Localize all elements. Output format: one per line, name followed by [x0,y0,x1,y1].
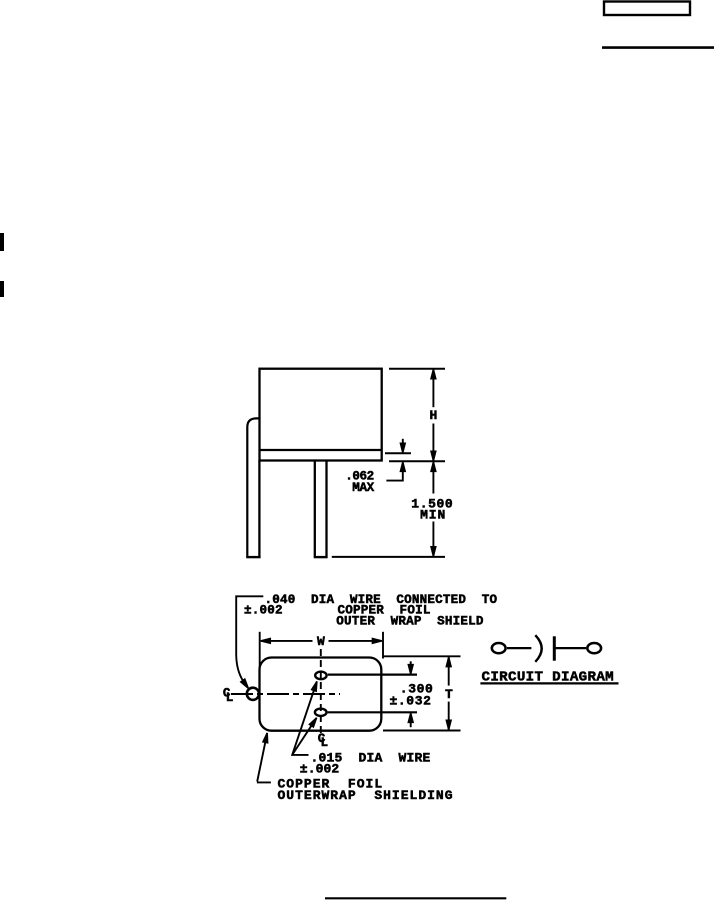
leader arrowhead to bottom wire [309,718,316,727]
.062 upper arrow stub [402,439,404,444]
.062 top tick extension line [385,452,411,454]
H dimension line upper segment [432,369,434,408]
circuit diagram right wire [556,647,587,649]
T dimension line lower segment [448,702,450,730]
capacitor curved plate [535,635,541,662]
circuit diagram left terminal [492,643,506,653]
leader arrowhead to case corner [263,733,268,743]
bottom wire cross-section ellipse [315,709,327,716]
.062 arrow up [400,462,405,472]
capacitor straight plate [553,636,556,660]
body base strip line (side view) [260,449,382,451]
left lead (bent, side view) [247,418,259,557]
H dimension top extension line [389,368,445,370]
W dimension line left segment [261,640,313,642]
svg-text:MAX: MAX [352,481,374,495]
1.500 arrow down [431,547,436,557]
vertical centerline (dashed) [320,649,322,733]
top wire cross-section ellipse [315,672,326,680]
.300 arrow down [408,665,413,675]
W extension line right [382,632,384,659]
leader lines from .015 label to wires [292,681,317,755]
1.500 dimension line lower segment [432,522,434,557]
header rule (top right) [602,46,714,49]
W dimension line right segment [329,640,382,642]
left lead bottom cap [246,556,260,558]
.300 arrow up [408,713,413,723]
H arrow down [431,451,436,461]
leader from .040 label to wire [236,596,263,681]
leader arrowhead to top wire [312,681,317,691]
svg-text:H: H [429,408,437,423]
1.500 dimension line upper segment [432,461,434,493]
leader arrowhead (.040 wire) [241,679,249,688]
W arrow left [261,639,271,644]
svg-text:L: L [321,736,329,750]
T arrow up [446,657,451,667]
T dimension line upper segment [448,657,450,686]
T extension line top [383,655,461,657]
.062 lower arrow stub and elbow [386,471,402,481]
underline for CIRCUIT DIAGRAM [480,682,618,684]
T extension line bottom [383,730,461,732]
left lead inner edge (side view) [258,461,260,557]
svg-text:W: W [317,634,325,649]
svg-text:L: L [226,691,234,705]
svg-text:±.002: ±.002 [244,604,283,618]
line from bottom ellipse [328,711,417,713]
1.500 arrow up [431,462,436,472]
T arrow down [446,720,451,730]
capacitor body outline (side view) [260,369,382,461]
footer rule (bottom center) [325,897,506,899]
capacitor body outline (end view, rounded) [260,658,382,731]
H arrow up [431,369,436,379]
H dimension bottom extension line [389,460,445,462]
.300 upper arrow stub [410,661,412,665]
change bar 1 (left margin) [0,233,4,251]
W extension line left [259,632,261,667]
seating plane baseline extension [332,556,445,558]
center lead bottom cap [314,556,328,558]
.040 wire circle (left) [247,688,259,700]
center lead left edge (side view) [314,461,316,557]
horizontal centerline (dash-dot) [231,693,340,695]
line from top ellipse [328,673,417,675]
svg-text:T: T [445,687,453,702]
center lead right edge (side view) [325,461,327,557]
svg-text:MIN: MIN [420,507,446,522]
.300 lower arrow stub [410,721,412,727]
.062 arrow down [400,443,405,453]
svg-text:OUTERWRAP SHIELDING: OUTERWRAP SHIELDING [278,788,454,803]
circuit diagram right terminal [587,643,601,653]
svg-text:OUTER WRAP SHIELD: OUTER WRAP SHIELD [336,614,484,628]
H dimension line lower segment [432,424,434,462]
circuit diagram left wire [507,647,531,649]
leader from COPPER FOIL label to case [257,733,271,782]
svg-text:±.032: ±.032 [390,693,432,708]
revision box (top right) [604,2,690,16]
svg-text:±.002: ±.002 [300,762,340,777]
change bar 2 (left margin) [0,281,4,297]
W arrow right [372,639,382,644]
